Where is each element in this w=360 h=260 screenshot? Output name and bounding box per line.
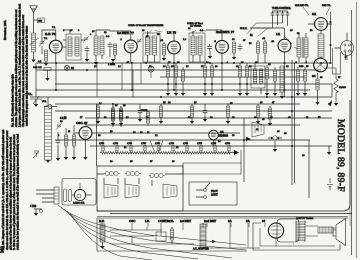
tube V7 84: [314, 58, 328, 72]
tube V10 control: [74, 189, 85, 200]
resistor R11 bias divider: [174, 66, 177, 77]
resistor R19 bias divider: [296, 70, 299, 81]
ground L2: [46, 160, 50, 163]
svg-text:6A: 6A: [312, 12, 317, 16]
ground R18: [273, 93, 277, 96]
svg-text:I.F. 78: I.F. 78: [167, 31, 176, 35]
wire bus B9 y=118: [85, 117, 332, 119]
svg-text:WAVE: WAVE: [141, 109, 148, 112]
ground VOL: [34, 104, 38, 107]
IF transformer T3 no.1: [143, 33, 160, 62]
switch wafer S20: [104, 184, 118, 198]
wire bus B6 y=97: [30, 96, 332, 98]
svg-text:Fig. 292. Diagram of Models 8: Fig. 292. Diagram of Models 89 and 89-F …: [2, 130, 5, 250]
resistor R21 decoupling: [111, 108, 114, 119]
wire bus B5 y=90: [36, 89, 310, 91]
ground R21: [111, 123, 115, 126]
ground R4: [232, 57, 236, 60]
ground R2: [111, 59, 115, 62]
resistor R16: [263, 42, 266, 53]
band switch unit box: [97, 166, 183, 211]
ground R16: [245, 93, 249, 96]
capacitor bank C9-C12: [271, 11, 275, 19]
antenna transformer T2: [94, 36, 98, 55]
socket strip left edge: [97, 218, 247, 251]
coil L5 socket: [100, 224, 105, 242]
svg-text:VOL: VOL: [42, 101, 47, 103]
svg-text:4,700: 4,700: [225, 143, 231, 145]
schematic right border rule: [351, 10, 353, 255]
wire bus B1 y=63: [36, 62, 330, 64]
svg-text:CONTROL: CONTROL: [158, 219, 174, 223]
svg-text:2nd DET: 2nd DET: [204, 219, 217, 223]
wire cable fan to sockets: [58, 205, 246, 260]
V notch: [150, 141, 163, 152]
svg-text:chassis used also for Model 19: chassis used also for Model 19, code 123…: [6, 130, 9, 250]
tone control arm: [284, 36, 298, 49]
resistor R23 decoupling: [159, 106, 162, 117]
svg-text:52 K.C.: 52 K.C.: [240, 28, 248, 30]
svg-text:4,700: 4,700: [113, 143, 119, 145]
resistor R16 bias divider: [245, 66, 248, 77]
tube V4 2nd DET. 77: [216, 40, 229, 53]
ground R15: [238, 93, 242, 96]
svg-text:OSC: OSC: [129, 219, 135, 223]
svg-text:marked for the purpose and: marked for the purpose and the switch is…: [26, 25, 29, 126]
ground R22: [119, 123, 123, 126]
component box socket: [156, 232, 166, 241]
resistor R12 bias divider: [181, 70, 184, 81]
wire V1 grid cap: [42, 30, 56, 63]
svg-text:CHASSIS: CHASSIS: [218, 135, 229, 138]
svg-text:I.F. TRANSFORMER: I.F. TRANSFORMER: [143, 24, 164, 27]
resistor R17 SW on vol: [44, 68, 51, 71]
resistor R9: [64, 135, 67, 146]
capacitor C13: [138, 108, 143, 115]
tube V2 1st DET. 77: [124, 40, 137, 53]
svg-text:ANT: ANT: [38, 20, 43, 23]
svg-text:switch in the low position cut: switch in the low position cuts the aeri…: [17, 133, 20, 250]
speaker plug P1: [341, 41, 354, 56]
svg-text:PILOT: PILOT: [211, 191, 218, 193]
ground antenna: [31, 60, 35, 63]
ground R10: [72, 157, 76, 160]
svg-text:LIGHT: LIGHT: [211, 195, 218, 197]
page right edge rule: [356, 2, 358, 258]
wire bus B4 y=84: [55, 83, 332, 85]
svg-text:Fig. 291. (Continued) Socket: Fig. 291. (Continued) Socket voltage dat…: [11, 73, 14, 127]
svg-text:15,000: 15,000: [339, 87, 346, 89]
ground 6tab: [34, 213, 38, 216]
resistor R26 decoupling: [256, 106, 259, 117]
wire tube cathode drops: [56, 63, 285, 166]
trimmer C6: [136, 38, 142, 44]
output transformer T6: [296, 221, 305, 243]
svg-text:302: 302: [0, 245, 4, 253]
svg-text:4,700: 4,700: [127, 143, 133, 145]
resistor R14: [170, 229, 173, 240]
socket wires left: [110, 227, 194, 244]
svg-text:ON: ON: [220, 132, 224, 134]
svg-text:1A: 1A: [276, 32, 281, 36]
wire switch internals: [97, 174, 183, 186]
svg-text:MODEL 89, 89-F: MODEL 89, 89-F: [335, 119, 346, 192]
svg-text:November, 1935.: November, 1935.: [3, 20, 7, 40]
power switch box: [189, 182, 237, 205]
ground R14: [210, 93, 214, 96]
output tube V11: [268, 223, 283, 238]
resistor R10: [72, 135, 75, 146]
relay coil B: [68, 190, 71, 202]
ground R13: [203, 93, 207, 96]
ground R3: [162, 58, 166, 61]
svg-text:RED TR.: RED TR.: [322, 5, 331, 7]
resistor R2: [113, 44, 116, 55]
wire bus B12 y=140: [55, 139, 310, 141]
wire V2 grid: [110, 31, 131, 63]
wire 1A grid bus: [250, 27, 285, 29]
resistor R11: [111, 110, 114, 121]
electrolytic small: [148, 66, 154, 72]
ground R23: [159, 121, 163, 124]
antenna: [30, 6, 37, 33]
terminal strip: [54, 187, 59, 204]
tube V9 resistor on chassis: [209, 130, 219, 140]
capacitor C4: [108, 42, 113, 49]
svg-text:RADIO SW.: RADIO SW.: [73, 202, 85, 205]
ground R11: [174, 93, 178, 96]
ground right: [327, 152, 331, 155]
ground plug: [345, 52, 347, 60]
ground R17: [265, 93, 269, 96]
svg-text:1st DET: 1st DET: [180, 219, 192, 223]
range switch wafer S1: [252, 122, 264, 137]
ground L5: [100, 246, 104, 249]
IF transformer T3b no.2: [189, 33, 205, 62]
ground V8: [83, 157, 87, 160]
resistor R14 bias divider: [210, 66, 213, 77]
svg-text:1st DET. 77: 1st DET. 77: [117, 31, 134, 35]
wire bus B7 y=104: [55, 103, 300, 105]
ground R26: [256, 121, 260, 124]
switch wafer S21: [125, 184, 139, 198]
svg-text:I.F. TRANS.: I.F. TRANS.: [190, 25, 202, 28]
resistor R20 decoupling: [96, 106, 99, 117]
adapter coil L6: [200, 224, 206, 247]
tube V6 6A: [315, 18, 328, 31]
svg-text:R.F.: R.F.: [99, 219, 105, 223]
svg-text:4,700: 4,700: [211, 143, 217, 145]
tuning condenser C1: [39, 40, 45, 46]
ground C15: [56, 158, 60, 161]
capacitor C15: [56, 138, 61, 145]
svg-text:S.W. ON: S.W. ON: [33, 67, 42, 69]
svg-text:TONE CONTROL: TONE CONTROL: [272, 7, 292, 10]
svg-text:84: 84: [262, 219, 266, 223]
antenna coil L1: [32, 33, 36, 52]
wire RF cathode drop: [35, 63, 37, 97]
resistor R10 bias divider: [166, 66, 169, 77]
svg-text:4,700: 4,700: [99, 143, 105, 145]
ground R19: [296, 93, 300, 96]
speaker unit loop: [253, 223, 340, 250]
ground R7: [334, 103, 338, 106]
wire bus B13 y=146: [90, 145, 332, 147]
resistor R1 cathode: [44, 50, 47, 61]
resistor R18 bias divider: [273, 70, 276, 81]
dial lamp: [64, 65, 69, 70]
tube V3 I.F. 78: [168, 41, 181, 54]
socket strip top rules: [97, 217, 348, 219]
coil L42 switch: [150, 173, 163, 177]
wire bus B11 y=133: [95, 132, 240, 134]
resistor R27 decoupling: [268, 108, 271, 119]
resistor R7 15000 zigzag: [334, 72, 338, 96]
antenna series condenser: [38, 18, 45, 23]
svg-text:R.F. 78: R.F. 78: [45, 32, 55, 36]
capacitor C3: [85, 46, 90, 53]
svg-text:2nd DET. 77: 2nd DET. 77: [216, 30, 234, 34]
tube V8 OSC. 37: [79, 127, 92, 140]
tube V1 R.F. 78: [49, 40, 62, 53]
wire bus B2 y=70: [36, 69, 321, 71]
wire bus B8 y=111: [55, 110, 332, 112]
resistor R22 decoupling: [119, 108, 122, 119]
phono jack small: [48, 105, 52, 109]
value labels: [38, 27, 341, 163]
resistor R3: [162, 44, 165, 55]
svg-text:84: 84: [312, 74, 316, 78]
ground R17: [45, 78, 49, 81]
switch wafer S22: [163, 184, 177, 198]
trimmer C2: [83, 36, 89, 42]
resistor R13 bias divider: [203, 66, 206, 77]
ground C3: [85, 59, 89, 62]
coil L41 switch: [126, 171, 139, 175]
svg-text:4,700: 4,700: [141, 143, 147, 145]
svg-text:4,700: 4,700: [155, 143, 161, 145]
ground R27: [268, 123, 272, 126]
driver transformer T4: [297, 38, 301, 57]
svg-text:grid circuits of the first det: grid circuits of the first detector and …: [9, 136, 12, 250]
svg-text:1 MEG.: 1 MEG.: [108, 64, 116, 66]
speaker: [333, 219, 346, 246]
volume control VOL: [30, 96, 42, 104]
svg-text:4,700: 4,700: [183, 143, 189, 145]
resistor R24 decoupling: [190, 106, 193, 117]
volume control resistor R8: [280, 66, 284, 92]
wire bus B10 y=125: [85, 124, 300, 126]
wire drops left midband: [97, 63, 141, 97]
arrow tap: [245, 138, 248, 140]
resistor R6: [316, 79, 319, 90]
coil L40 switch: [105, 171, 118, 175]
resistance line R13 zigzag: [100, 152, 230, 154]
resistor R17 bias divider: [265, 68, 268, 79]
output unit box: [277, 219, 299, 242]
capacitor C8: [238, 44, 243, 51]
ground R20: [96, 121, 100, 124]
power unit enclosure: [183, 150, 241, 174]
ground R6: [315, 102, 319, 105]
wire above resistance line: [103, 140, 215, 145]
switch S3 on-off: [204, 189, 207, 192]
RF plate coil T1: [66, 34, 81, 60]
ground T2: [94, 62, 98, 65]
resistor R15: [256, 42, 259, 53]
ground R12: [181, 93, 185, 96]
relay coil A: [64, 189, 67, 202]
wire bus B3 y=77: [160, 76, 305, 78]
capacitor C14: [203, 108, 208, 115]
padder trimmer left: [33, 151, 39, 158]
trimmer across antenna coil: [30, 38, 39, 45]
socket wires right: [203, 223, 260, 248]
svg-text:to 460 kc. by means of padders: to 460 kc. by means of padders placed on…: [13, 134, 16, 250]
arrow right top: [328, 100, 332, 105]
ground R24: [190, 121, 194, 124]
svg-text:6A: 6A: [71, 67, 74, 70]
candohm resistor R5: [318, 34, 324, 57]
field coil L7: [318, 227, 333, 233]
ground R8: [280, 96, 284, 99]
control unit box: [62, 179, 96, 206]
svg-text:4,700: 4,700: [169, 143, 175, 145]
svg-text:OUTPUT TRANS.: OUTPUT TRANS.: [296, 217, 314, 220]
ground R10: [166, 93, 170, 96]
ground RF cathode: [44, 63, 48, 66]
svg-text:BLK-RED TR.: BLK-RED TR.: [295, 5, 309, 7]
svg-text:OSC. 37: OSC. 37: [76, 121, 88, 125]
capacitor C7: [207, 44, 212, 51]
wire speaker bottom: [276, 239, 294, 247]
resistor R110 bias divider: [303, 70, 306, 81]
wire leads to strip: [36, 190, 54, 202]
oscillator coil L2: [45, 106, 52, 160]
padder trimmers: [56, 123, 62, 129]
ground J1: [273, 149, 277, 152]
svg-text:I.F.: I.F.: [145, 219, 150, 223]
svg-text:6 TAB: 6 TAB: [30, 205, 37, 208]
battery symbol: [327, 178, 333, 191]
wire right risers: [244, 12, 332, 198]
ground R9: [64, 157, 68, 160]
resistor R25 decoupling: [226, 106, 229, 117]
ground R110: [303, 93, 307, 96]
resistor R15 bias divider: [238, 66, 241, 77]
svg-text:4,700: 4,700: [197, 143, 203, 145]
tone switch wires: [247, 23, 283, 36]
tube V5 1A: [278, 39, 291, 52]
ground C7: [208, 56, 212, 59]
IF transformer T5: [251, 66, 265, 88]
resistor R12: [119, 110, 122, 121]
ground R25: [226, 121, 230, 124]
resistor R4: [232, 42, 235, 53]
svg-text:VOL.: VOL.: [27, 93, 33, 96]
phono jack J1: [273, 136, 277, 140]
